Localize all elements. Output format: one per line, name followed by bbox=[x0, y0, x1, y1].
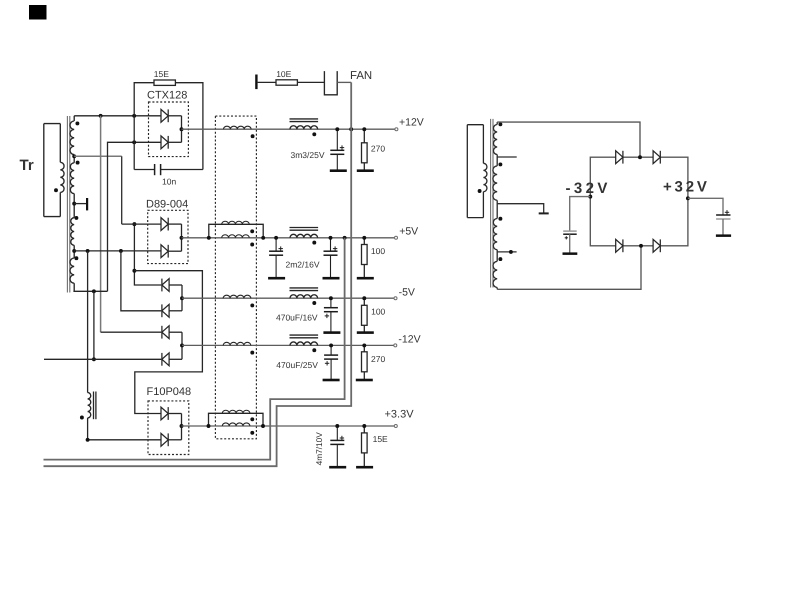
wire: gray rail from top tap down to diode D5 feed bbox=[100, 116, 102, 332]
node: -12V resistor junction bbox=[362, 343, 366, 347]
wire: right secondary bottom to bridge bbox=[497, 246, 641, 289]
-12V filter coil in box bbox=[223, 342, 251, 345]
ground bar of C+32 bbox=[716, 234, 731, 237]
ground bar at transformer tap B bbox=[86, 198, 88, 210]
rail from FAN down and left to lower bus bbox=[44, 82, 352, 466]
-5V filter coil in box bbox=[223, 295, 251, 298]
F10P048 dashed box bbox=[148, 401, 189, 455]
wire: long route to F10 upper diode bbox=[134, 271, 202, 414]
+12V filter coil in box bbox=[224, 126, 252, 129]
wire: -32V output bbox=[570, 197, 591, 232]
node: tap B junction bbox=[72, 202, 76, 206]
capacitor 470uF/25V bbox=[330, 345, 332, 355]
wire: standby line down to auxiliary coil bbox=[87, 251, 89, 393]
plus mark of C+32 bbox=[725, 210, 729, 214]
node: +12V resistor junction bbox=[362, 127, 366, 131]
minus mark of C-32 bbox=[565, 236, 568, 239]
terminal -12V bbox=[394, 344, 397, 347]
CTX128 snubber loop with 15E and 10n bbox=[134, 83, 203, 170]
svg-text:10E: 10E bbox=[276, 69, 291, 79]
ground bar of 270 bbox=[357, 169, 374, 172]
node: tap A junction bbox=[72, 154, 76, 158]
wire: feed into D89 upper bbox=[122, 223, 161, 225]
node: CTX output junction bbox=[180, 127, 184, 131]
wire: F10 outputs join bbox=[168, 414, 181, 440]
node: tap C / D6 feed junction bbox=[119, 249, 123, 253]
bridge rectangle bbox=[590, 157, 688, 246]
node: +3.3V loop left bbox=[207, 424, 211, 428]
output choke Lm5 bbox=[290, 288, 319, 298]
bridge diode DB1 (top left) bbox=[616, 151, 623, 164]
ground bar of 4m7 cap bbox=[329, 466, 346, 469]
node: -5V resistor junction bbox=[362, 296, 366, 300]
capacitor 2m2/16V (first) bbox=[275, 238, 277, 251]
svg-text:270: 270 bbox=[371, 144, 385, 154]
wire: auxiliary coil to F10 lower diode bbox=[88, 418, 161, 440]
node: -12V pair output junction bbox=[180, 343, 184, 347]
phase dot of -12V filter coil bbox=[250, 351, 254, 355]
node: +5V loop left bbox=[207, 236, 211, 240]
diode D2 (CTX lower) bbox=[161, 136, 168, 149]
right transformer core bbox=[491, 119, 493, 288]
capacitor C-32 plates bbox=[563, 231, 577, 234]
+5V twin filter coil loop bbox=[209, 221, 263, 238]
node: D89 output junction bbox=[180, 236, 184, 240]
right transformer secondary winding bbox=[493, 122, 497, 289]
svg-text:10n: 10n bbox=[162, 177, 176, 187]
node: -5V cap junction bbox=[329, 296, 333, 300]
node: D7 feed junction bbox=[92, 357, 96, 361]
big dashed filter box bbox=[215, 116, 256, 439]
fan connector symbol bbox=[324, 71, 337, 95]
black square artifact top-left bbox=[29, 5, 47, 20]
phase dot choke L12 bbox=[312, 132, 316, 136]
auxiliary coil core bbox=[94, 392, 96, 420]
right primary phase dot bbox=[478, 189, 482, 193]
svg-text:D89-004: D89-004 bbox=[146, 198, 188, 210]
ground bar of second 2m2 cap bbox=[323, 277, 340, 280]
node: top wire / CTX loop junction bbox=[132, 114, 136, 118]
node: CTX lower / loop junction bbox=[132, 140, 136, 144]
svg-text:2m2/16V: 2m2/16V bbox=[286, 260, 320, 270]
svg-text:-32V: -32V bbox=[566, 180, 611, 197]
svg-text:15E: 15E bbox=[154, 69, 169, 79]
node: tap C junction bbox=[72, 249, 76, 253]
wire: C-32 lower lead bbox=[569, 234, 571, 252]
plus mark of 3m3 cap bbox=[340, 145, 344, 149]
ground bar of 15E bbox=[356, 466, 373, 469]
node: first cap junction bbox=[274, 236, 278, 240]
wire: fan connector to +12V rail bbox=[337, 81, 351, 83]
resistor 270 (-12V) bbox=[363, 345, 365, 351]
primary phase dot bbox=[54, 188, 58, 192]
auxiliary standby coil bbox=[88, 393, 91, 418]
wire: tap B to ground bar bbox=[74, 203, 86, 205]
resistor 100 (-5V) bbox=[363, 298, 365, 305]
capacitor 2m2/16V (second) bbox=[330, 238, 332, 251]
ground bar of 3m3 cap bbox=[330, 169, 347, 172]
output choke Lm12 bbox=[290, 335, 319, 345]
node: bridge right mid (+32V) bbox=[686, 196, 690, 200]
node: bottom terminal junction bbox=[92, 289, 96, 293]
ground bar of 100 bbox=[357, 277, 374, 280]
wire: secondary top terminal to CTX upper diode bbox=[74, 115, 161, 117]
wire: bottom terminal up to CTX lower diode bbox=[108, 142, 162, 291]
resistor 15E (+3.3V) bbox=[363, 426, 365, 433]
plus mark of 470uF/25V (below) bbox=[325, 361, 329, 365]
diode D3 (D89 upper) bbox=[161, 218, 168, 231]
wire: +3.3V row bbox=[182, 425, 395, 427]
wire: right secondary top to bridge bbox=[497, 122, 640, 157]
node: +3.3V loop right bbox=[261, 424, 265, 428]
terminal -5V bbox=[394, 297, 397, 300]
phase dot of -5V filter coil bbox=[250, 303, 254, 307]
node: 4m7 cap junction bbox=[335, 424, 339, 428]
node: second cap junction bbox=[329, 236, 333, 240]
node: fan rail junction on +12V bbox=[349, 127, 353, 131]
svg-text:Tr: Tr bbox=[20, 157, 34, 174]
capacitor 4m7/10V bbox=[336, 426, 338, 440]
CTX128 dashed box bbox=[149, 102, 189, 157]
wire: tap A (gray) to D89 upper bbox=[74, 155, 122, 157]
fan supply terminal bar bbox=[255, 75, 257, 90]
svg-text:+32V: +32V bbox=[663, 178, 710, 195]
svg-text:100: 100 bbox=[371, 307, 385, 317]
ground bar of -12V 270 bbox=[356, 379, 373, 382]
ground bar of 470uF/25V bbox=[323, 379, 340, 382]
right secondary tap 1 stub bbox=[497, 156, 517, 158]
phase dot of +12V filter coil bbox=[251, 134, 255, 138]
wire: 10E to fan connector bbox=[297, 81, 324, 83]
capacitor 10n plates bbox=[155, 164, 161, 175]
capacitor C+32 plates bbox=[716, 215, 730, 219]
resistor 100 (+5V) bbox=[363, 238, 365, 245]
wire: D89 outputs join bbox=[168, 224, 181, 251]
+3.3V twin filter coil loop bbox=[209, 410, 264, 426]
diode D4x (D89 lower) bbox=[161, 245, 168, 258]
phase dot choke Lm5 bbox=[312, 301, 316, 305]
svg-text:100: 100 bbox=[371, 246, 385, 256]
node: +12V cap junction bbox=[335, 127, 339, 131]
diode D9 (F10 lower) bbox=[161, 433, 168, 446]
capacitor 3m3/25V bbox=[336, 129, 338, 150]
node: D89 upper wire junction bbox=[132, 222, 136, 226]
node: +5V resistor junction bbox=[362, 236, 366, 240]
svg-text:+3.3V: +3.3V bbox=[385, 409, 415, 421]
ground bar of -5V 100 bbox=[357, 331, 374, 334]
node: top terminal / gray rail junction bbox=[99, 114, 103, 118]
wire: D89 upper branch down to D4 feed bbox=[134, 224, 161, 285]
wire: bottom terminal down to D7 feed wire bbox=[93, 291, 95, 359]
ground bar of right tap 2 bbox=[539, 212, 549, 214]
wire: CTX diode outputs join bbox=[168, 116, 181, 143]
diode D4 (-5V upper, points left) bbox=[162, 279, 169, 292]
node: bridge bottom center bbox=[639, 244, 643, 248]
wire: +5V row bbox=[182, 237, 395, 239]
phase dot choke L5 bbox=[312, 241, 316, 245]
resistor 15E (top snubber) bbox=[154, 80, 175, 85]
wire: D89 lower branch down to D6 feed bbox=[121, 251, 161, 311]
diode D1 (CTX upper) bbox=[161, 109, 168, 122]
ground bar of 470uF/16V bbox=[323, 331, 340, 334]
transformer Tr core bbox=[67, 116, 69, 293]
wire: -12V pair outputs join bbox=[169, 332, 182, 359]
node: bridge left mid (-32V) bbox=[588, 195, 592, 199]
bridge diode DB3 (bottom left) bbox=[616, 239, 623, 252]
secondary phase dots bbox=[75, 121, 79, 125]
svg-text:470uF/16V: 470uF/16V bbox=[276, 313, 318, 323]
node: bridge top center bbox=[638, 155, 642, 159]
phase dots of +3.3V twin coil bbox=[250, 417, 254, 421]
wire: secondary bottom terminal bbox=[73, 290, 107, 292]
wire: -5V row bbox=[182, 297, 394, 299]
node: branch to F10 route bbox=[132, 269, 136, 273]
node: 15E junction bbox=[362, 424, 366, 428]
node: -5V pair output junction bbox=[180, 296, 184, 300]
svg-text:270: 270 bbox=[371, 354, 385, 364]
capacitor 470uF/16V bbox=[330, 298, 332, 308]
D89-004 dashed box bbox=[148, 210, 188, 263]
node: corner dot at aux coil output bbox=[86, 438, 90, 442]
resistor 10E bbox=[276, 80, 297, 85]
output choke L12 bbox=[290, 119, 319, 129]
rail from +5V down and left to upper bus bbox=[44, 238, 345, 460]
diode D5 (-12V upper, points left) bbox=[162, 326, 169, 339]
output choke L5 bbox=[290, 228, 319, 238]
svg-text:15E: 15E bbox=[373, 434, 388, 444]
node: tap C / standby line junction bbox=[86, 249, 90, 253]
bridge diode DB4 (bottom right) bbox=[653, 239, 660, 252]
transformer Tr secondary winding bbox=[70, 116, 74, 291]
node: F10 output junction bbox=[180, 424, 184, 428]
bridge diode DB2 (top right) bbox=[653, 151, 660, 164]
wire: -12V row bbox=[182, 344, 394, 346]
node: +5V bus rail junction bbox=[343, 236, 347, 240]
svg-text:+5V: +5V bbox=[399, 225, 418, 237]
auxiliary coil phase dot bbox=[80, 416, 84, 420]
node: -12V cap junction bbox=[329, 343, 333, 347]
diode D8 (F10 upper) bbox=[161, 407, 168, 420]
terminal +3.3V bbox=[394, 425, 397, 428]
right transformer primary winding bbox=[467, 125, 487, 218]
resistor 270 (+12V) bbox=[363, 129, 365, 143]
plus mark of 470uF/16V (below) bbox=[325, 314, 329, 318]
wire: +12V row bbox=[182, 128, 395, 130]
phase dots of +5V twin coil bbox=[250, 229, 254, 233]
right secondary tap 2 to ground bbox=[497, 204, 544, 213]
right secondary tap 3 stub bbox=[497, 251, 516, 253]
ground bar of C-32 bbox=[563, 252, 578, 255]
terminal +12V bbox=[395, 128, 398, 131]
svg-text:F10P048: F10P048 bbox=[147, 386, 192, 398]
svg-text:-12V: -12V bbox=[398, 333, 420, 345]
ground bar of first 2m2 cap bbox=[268, 277, 285, 280]
wire: -5V pair outputs join bbox=[169, 285, 182, 311]
wire: tap C to D89 lower diode bbox=[74, 250, 161, 252]
right secondary phase dots bbox=[498, 122, 502, 126]
svg-text:-5V: -5V bbox=[399, 287, 415, 299]
wire: bar to 10E bbox=[258, 81, 276, 83]
svg-text:+12V: +12V bbox=[399, 117, 424, 129]
svg-text:3m3/25V: 3m3/25V bbox=[291, 150, 325, 160]
diode D7 (-12V lower, points left) bbox=[162, 353, 169, 366]
svg-text:CTX128: CTX128 bbox=[147, 90, 187, 102]
transformer Tr primary winding bbox=[44, 124, 64, 217]
svg-text:4m7/10V: 4m7/10V bbox=[314, 432, 324, 466]
phase dot choke Lm12 bbox=[312, 348, 316, 352]
node: +5V loop right bbox=[261, 236, 265, 240]
wire: +32V output bbox=[688, 198, 723, 215]
diode D6 (-5V lower, points left) bbox=[162, 304, 169, 317]
node: dot on tap 3 stub bbox=[509, 250, 513, 254]
wire: D7 feed wire from left stub bbox=[44, 358, 161, 360]
wire: C+32 lower lead bbox=[722, 219, 724, 235]
terminal +5V bbox=[395, 236, 398, 239]
svg-text:FAN: FAN bbox=[350, 70, 372, 82]
svg-text:470uF/25V: 470uF/25V bbox=[276, 360, 318, 370]
